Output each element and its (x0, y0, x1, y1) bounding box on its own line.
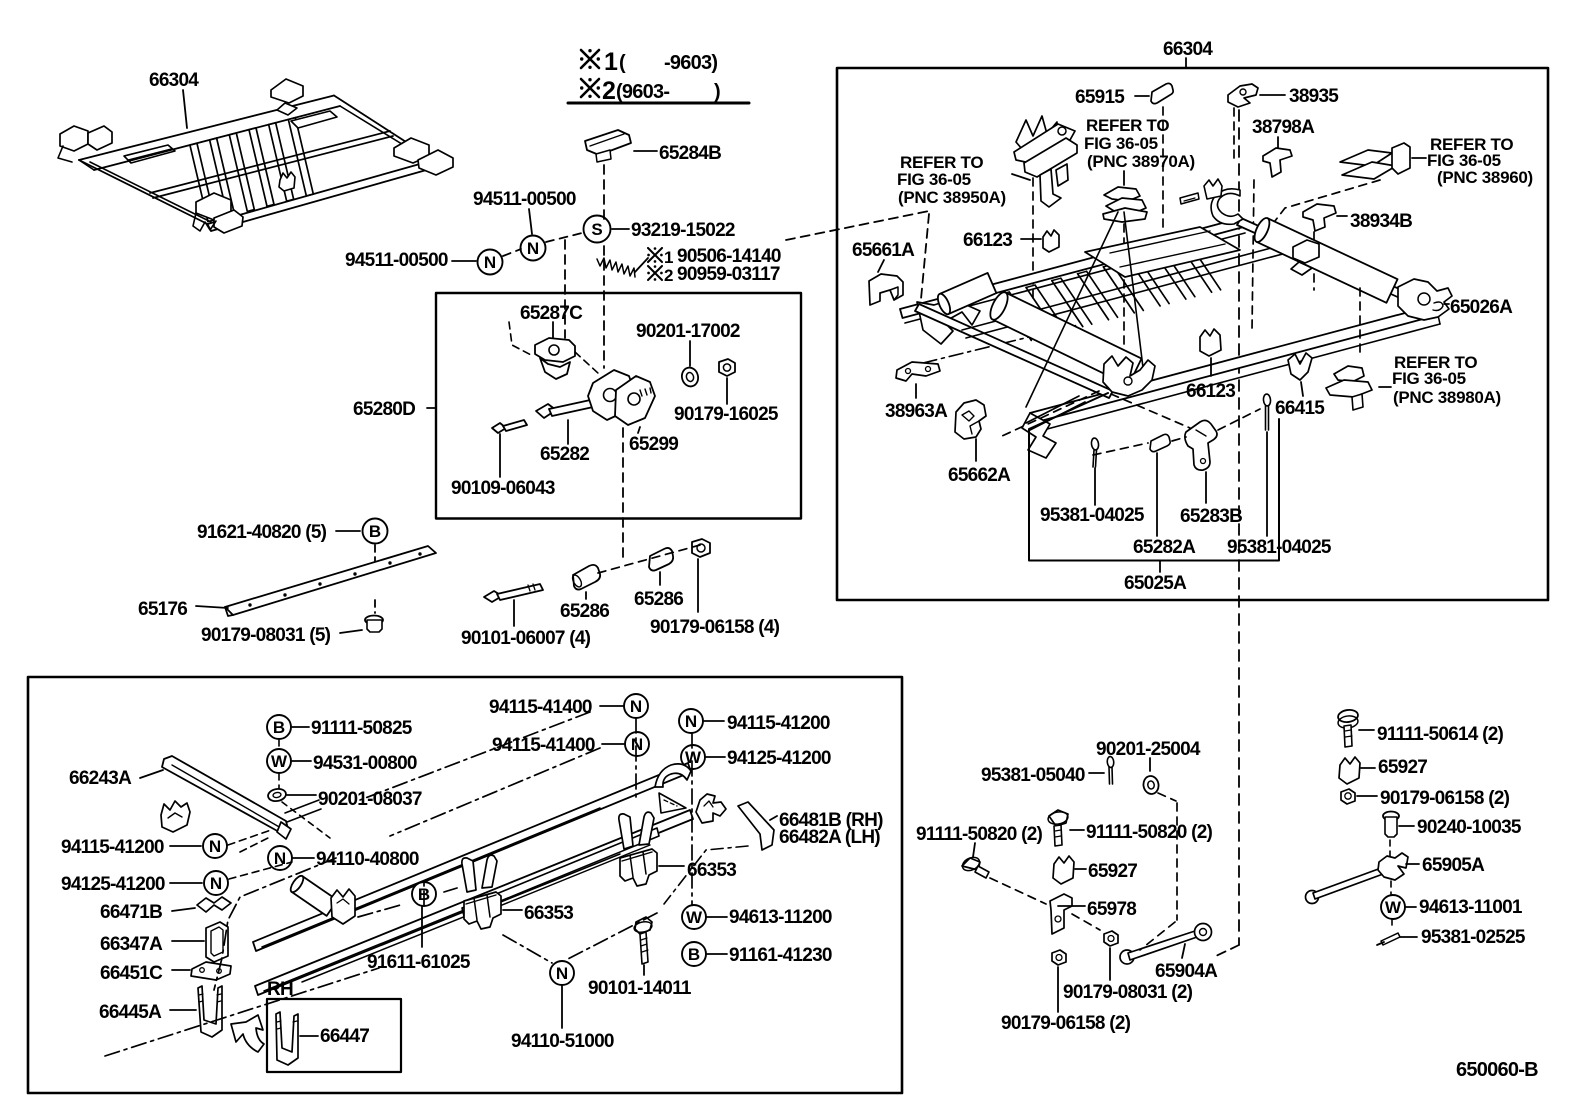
frame 66304 left rail (79, 160, 208, 224)
part 66471B (197, 897, 231, 912)
svg-text:): ) (714, 81, 720, 103)
U-clip prongs left pair (462, 858, 476, 892)
part 65283B elbow (1185, 420, 1217, 470)
svg-text:65661A: 65661A (852, 240, 915, 261)
svg-text:65283B: 65283B (1180, 506, 1242, 527)
svg-text:REFER TO: REFER TO (1086, 116, 1169, 135)
leader 65282 (567, 420, 569, 444)
svg-text:38934B: 38934B (1350, 211, 1412, 232)
part 38970A clips (1104, 187, 1140, 201)
svg-text:66123: 66123 (1186, 381, 1235, 402)
leader 38935 (1260, 94, 1285, 96)
bolt 65282 thread end (640, 390, 642, 396)
svg-text:66243A: 66243A (69, 768, 132, 789)
svg-text:FIG 36-05: FIG 36-05 (897, 170, 971, 189)
svg-text:90179-06158 (4): 90179-06158 (4) (650, 617, 780, 638)
svg-text:65286: 65286 (634, 589, 683, 610)
leader (292, 726, 309, 728)
part 38980A cluster (1334, 366, 1364, 382)
leader 65287C (552, 322, 554, 341)
svg-text:90201-08037: 90201-08037 (318, 789, 422, 810)
rail 66243A (162, 756, 288, 833)
frame TR front rail (1030, 305, 1438, 423)
frame 66304 bottom corner bracket (196, 193, 231, 220)
part 38960 wedges (1340, 150, 1392, 166)
svg-text:N: N (630, 697, 642, 716)
leader 38960 (1412, 157, 1426, 159)
leader 90506 (635, 258, 648, 272)
part 65661A bracket (869, 274, 903, 305)
bolt 90101-14011 (635, 917, 652, 934)
dashes right column (1389, 840, 1391, 856)
dashed vertical from 65284B (603, 165, 605, 222)
dashes around 65287C (509, 322, 531, 355)
svg-text:65282A: 65282A (1133, 537, 1196, 558)
svg-text:65299: 65299 (629, 434, 678, 455)
leader (1109, 948, 1111, 980)
leader line 65284B (634, 150, 657, 152)
svg-text:N: N (527, 239, 539, 258)
leader 95381-04025 right (1266, 432, 1268, 536)
svg-text:94613-11200: 94613-11200 (729, 907, 832, 928)
svg-text:(9603-: (9603- (616, 81, 669, 103)
long rail R1 (253, 763, 691, 951)
frame 66304 right channel piece (291, 111, 337, 128)
svg-text:90240-10035: 90240-10035 (1417, 817, 1522, 838)
frame 66304 top corner bracket (271, 79, 303, 103)
note mark 2 (581, 79, 599, 97)
leader (1149, 758, 1151, 771)
leader 91611-61025 (421, 906, 423, 947)
svg-text:94115-41200: 94115-41200 (727, 713, 830, 734)
leader 66353 left (503, 909, 522, 911)
frame TR right rail (1237, 218, 1435, 312)
node N 41200L1 (203, 834, 227, 858)
box 65280D (436, 293, 801, 519)
frame 66304 mid line (front rail top edge) (150, 131, 390, 193)
svg-text:91611-61025: 91611-61025 (367, 952, 471, 973)
nut 90179-08031(2) (1104, 931, 1118, 946)
leader 90179-16025 (726, 378, 728, 404)
svg-text:N: N (631, 735, 643, 754)
dashed below 38970A clips (1123, 224, 1125, 350)
dashes 65662A chain (1000, 391, 1099, 437)
svg-text:65026A: 65026A (1450, 297, 1513, 318)
leader (172, 908, 195, 911)
nut 90179-06158(2) (1052, 950, 1066, 965)
svg-text:93219-15022: 93219-15022 (631, 220, 735, 241)
dashed below 38934B (1313, 232, 1315, 290)
svg-text:90179-08031 (5): 90179-08031 (5) (201, 625, 331, 646)
dashed diagonal through 65286 (598, 545, 700, 573)
frame TR mid longitudinal (962, 243, 1290, 330)
nut 90179-16025 (719, 359, 735, 376)
leader 65025A (1159, 561, 1161, 572)
svg-text:(PNC 38980A): (PNC 38980A) (1393, 388, 1501, 407)
leader 91621 (336, 530, 360, 532)
leader 94511-00500 upper (529, 209, 532, 234)
leader (707, 953, 727, 955)
svg-text:66304: 66304 (149, 70, 199, 91)
leader (1400, 936, 1417, 938)
frame 66304 left corner bracket (60, 126, 88, 151)
svg-text:91161-41230: 91161-41230 (729, 945, 832, 966)
svg-text:66347A: 66347A (100, 934, 163, 955)
dashed below 38798A (1252, 180, 1254, 330)
svg-text:N: N (209, 837, 221, 856)
part 65284B plate (585, 130, 631, 155)
dashes bottom-right (990, 878, 1046, 904)
svg-text:90101-06007 (4): 90101-06007 (4) (461, 628, 591, 649)
leader 65283B (1205, 472, 1207, 503)
svg-text:1: 1 (604, 48, 618, 76)
svg-text:90179-16025: 90179-16025 (674, 404, 779, 425)
clip 66123 bottom (1200, 329, 1221, 356)
rail right end curl (655, 764, 691, 787)
svg-text:65927: 65927 (1378, 757, 1427, 778)
svg-text:RH: RH (267, 979, 293, 1000)
leader 65905A (1406, 863, 1419, 865)
svg-text:94110-51000: 94110-51000 (511, 1031, 614, 1052)
frame TR front rail web (1036, 324, 1440, 432)
clip 66243A lower-left (161, 801, 190, 832)
svg-text:2: 2 (602, 77, 616, 105)
leader 66304 tr (1185, 58, 1187, 68)
pin 95381-05040 (1107, 756, 1114, 768)
leader (602, 743, 624, 745)
svg-text:66304: 66304 (1163, 39, 1213, 60)
leader 65661A (878, 260, 884, 272)
leader (170, 845, 201, 847)
svg-text:N: N (484, 253, 496, 272)
svg-text:66445A: 66445A (99, 1002, 162, 1023)
svg-text:(PNC 38960): (PNC 38960) (1437, 168, 1533, 187)
leader 90179-08031(5) (340, 630, 362, 633)
part 66451C (191, 962, 231, 980)
svg-text:90101-14011: 90101-14011 (588, 978, 692, 999)
svg-text:65287C: 65287C (520, 303, 583, 324)
clip 66123 top (1043, 230, 1059, 252)
svg-text:95381-04025: 95381-04025 (1227, 537, 1332, 558)
node B 50825 (267, 715, 291, 739)
leader (704, 720, 724, 722)
rail 66243A end hook (277, 822, 291, 839)
svg-text:94125-41200: 94125-41200 (727, 748, 831, 769)
leader 95381-04025 left (1094, 468, 1096, 505)
frame TR left short tube (940, 273, 997, 314)
frame TR: back rail (900, 218, 1244, 318)
long dashed vertical through diagram (1238, 110, 1240, 945)
leader 38980A (1379, 386, 1391, 388)
svg-text:FIG 36-05: FIG 36-05 (1084, 134, 1158, 153)
node W 41200r (681, 745, 705, 769)
leader 38934B (1337, 215, 1347, 217)
node N 41200r (679, 709, 703, 733)
frame 66304 small clip on front band (279, 172, 295, 191)
svg-text:91111-50825: 91111-50825 (311, 718, 413, 739)
svg-text:94531-00800: 94531-00800 (313, 753, 417, 774)
frame TR center platform (1085, 227, 1240, 277)
dashed B to strip (374, 545, 376, 567)
cylinder with clip mid-left (292, 876, 338, 916)
part 65299 triangular plates (588, 370, 634, 420)
leader 65915 (1135, 95, 1149, 97)
leader 38950A (1012, 174, 1030, 180)
leader (973, 843, 975, 857)
svg-text:94115-41400: 94115-41400 (492, 735, 595, 756)
node W 00800 (267, 749, 291, 773)
dashed vertical to 65287C (564, 240, 566, 338)
svg-text:S: S (591, 220, 602, 239)
leader (1089, 772, 1104, 774)
node S (584, 216, 611, 243)
part 38798A bracket (1263, 148, 1292, 177)
svg-text:90201-17002: 90201-17002 (636, 321, 740, 342)
dashed below 65026A (1359, 288, 1361, 358)
leader 66243A (140, 770, 163, 778)
part 66481B strip (738, 802, 774, 850)
clamp 65905A (1378, 853, 1408, 880)
leader 38963A (915, 384, 917, 398)
leader 90201-17002 (689, 341, 691, 366)
dashed below 38950A assembly (1032, 178, 1034, 298)
leader (1058, 905, 1085, 907)
svg-text:65176: 65176 (138, 599, 187, 620)
svg-text:65927: 65927 (1088, 861, 1137, 882)
bolt 90101-06007 (484, 591, 502, 602)
pin near 66415 (1263, 394, 1271, 407)
node W 11200 (682, 905, 706, 929)
svg-text:95381-02525: 95381-02525 (1421, 927, 1526, 948)
node N 40800 (268, 846, 292, 870)
leader (707, 916, 727, 918)
frame TR left rail (915, 304, 1113, 398)
box clip 66353 right (620, 849, 657, 886)
leader 66415 (1301, 382, 1303, 396)
svg-text:65978: 65978 (1087, 899, 1136, 920)
leader (600, 705, 623, 707)
nut 90179-06158 right (1341, 789, 1355, 804)
part 65662A elbow (955, 400, 986, 439)
pin 95381-02525 (1381, 933, 1400, 945)
part 38963A plate (896, 362, 940, 381)
pointer strokes near grommet (285, 800, 319, 813)
leader (1357, 795, 1377, 797)
clamp bracket at rail end (696, 794, 726, 823)
svg-text:94115-41400: 94115-41400 (489, 697, 592, 718)
svg-text:65286: 65286 (560, 601, 609, 622)
leader (1070, 829, 1084, 831)
frame 66304 front rail bottom (208, 160, 435, 224)
peg 90240-10035 (1383, 812, 1399, 821)
svg-text:65904A: 65904A (1155, 961, 1218, 982)
leader (706, 756, 725, 758)
strip 65176 (225, 546, 436, 615)
clip 65927 right (1339, 757, 1360, 784)
frame TR pointer lines from clips (1026, 212, 1118, 407)
leader (293, 857, 314, 859)
bolt 91111-50820 left (962, 858, 980, 870)
svg-text:65662A: 65662A (948, 465, 1011, 486)
svg-text:90179-06158 (2): 90179-06158 (2) (1380, 788, 1510, 809)
cylinder 65286 left (573, 565, 600, 590)
svg-text:66353: 66353 (524, 903, 573, 924)
frame 66304 left channel piece (124, 145, 175, 163)
frame TR tube B (1256, 218, 1397, 303)
leader (172, 969, 190, 971)
gusset triangle at rail end (659, 793, 686, 813)
leader 38970A (1123, 171, 1125, 185)
bracket 65978 (1050, 894, 1072, 934)
dashes between N N S (503, 249, 521, 256)
bolt 91111-50820 right (1049, 810, 1068, 826)
pin 95381-04025 left (1091, 438, 1100, 451)
svg-text:94511-00500: 94511-00500 (345, 250, 448, 271)
cylinder 65286 right (649, 548, 673, 571)
leader (1359, 729, 1374, 731)
svg-text:66123: 66123 (963, 230, 1012, 251)
leader 90179-06158(4) (697, 559, 699, 612)
part 66347A (206, 922, 228, 962)
svg-text:66482A (LH): 66482A (LH) (779, 827, 880, 848)
svg-text:N: N (210, 874, 222, 893)
washer 90201-25004 (1142, 775, 1160, 795)
leader (1406, 906, 1416, 908)
dashed from 38960 down-left (1268, 180, 1380, 230)
washer 90201-17002 (680, 366, 700, 388)
node B (363, 519, 388, 544)
svg-text:65025A: 65025A (1124, 573, 1187, 594)
node N 41400a (624, 694, 648, 718)
leader 65286 right (659, 572, 661, 585)
leader line 66304 (183, 90, 187, 128)
svg-text:95381-05040: 95381-05040 (981, 765, 1085, 786)
leader (292, 760, 311, 762)
part pronged clamp at frame bottom corner (1103, 356, 1155, 396)
node B 41230 (682, 942, 706, 966)
U-clip prongs right pair (619, 814, 633, 849)
svg-text:N: N (556, 964, 568, 983)
dashed line to top-right box (786, 211, 929, 240)
clip 65927 bottom (1053, 856, 1074, 884)
frame TR top-center clamp piece (1211, 189, 1243, 225)
solid pointer lines to 65025A subbox (1030, 402, 1085, 430)
svg-text:65282: 65282 (540, 444, 589, 465)
leader 66123 top (1021, 238, 1041, 240)
dashed below 65915 (1162, 107, 1164, 228)
svg-text:(PNC 38950A): (PNC 38950A) (898, 188, 1006, 207)
svg-text:94115-41200: 94115-41200 (61, 837, 164, 858)
frame TR back rail flange (905, 233, 1245, 323)
dashed vertical below plates (622, 428, 624, 558)
subassembly outline 65025A (1029, 393, 1279, 561)
leader 65026A (1444, 303, 1449, 305)
leader (287, 794, 316, 796)
frame assembly 66304 top-left: back rail (79, 96, 334, 161)
frame TR crossmembers (1000, 294, 1031, 340)
svg-text:650060-B: 650060-B (1456, 1059, 1538, 1081)
box clip 66353 left (464, 892, 501, 929)
bolt 65282 (536, 404, 556, 418)
svg-text:65905A: 65905A (1422, 855, 1485, 876)
svg-text:91111-50820 (2): 91111-50820 (2) (916, 824, 1043, 845)
leader 65176 (196, 606, 228, 608)
svg-text:66415: 66415 (1275, 398, 1325, 419)
leader 65662A (975, 439, 977, 461)
svg-text:2: 2 (664, 266, 673, 285)
svg-text:(PNC 38970A): (PNC 38970A) (1087, 152, 1195, 171)
part 66415 vclip (1288, 353, 1312, 380)
frame 66304 right rail (334, 96, 434, 161)
bolt 90109-06043 (492, 423, 506, 433)
part 66447 (276, 1012, 298, 1065)
dash-dot centerlines rails (360, 712, 590, 800)
svg-text:65915: 65915 (1075, 87, 1125, 108)
leader (561, 986, 563, 1028)
svg-text:B: B (688, 945, 700, 964)
node B 61025 (412, 882, 436, 906)
node N 41200L2 (204, 871, 228, 895)
svg-text:91111-50820 (2): 91111-50820 (2) (1086, 822, 1213, 843)
leader (1057, 967, 1059, 1012)
svg-text:38935: 38935 (1289, 86, 1339, 107)
leader 65299 (638, 427, 640, 433)
svg-text:66353: 66353 (687, 860, 736, 881)
svg-text:N: N (685, 712, 697, 731)
svg-text:90959-03117: 90959-03117 (677, 264, 780, 285)
leader (172, 940, 204, 942)
leader 65282A (1156, 453, 1158, 536)
part 38935 clamp (1228, 84, 1258, 107)
leader 66447 (300, 1035, 318, 1037)
svg-text:B: B (369, 522, 381, 541)
fastener 90179-08031(5) (365, 616, 383, 625)
svg-text:-9603): -9603) (664, 52, 717, 74)
note underline (568, 102, 749, 105)
leader (643, 965, 645, 975)
bolt 91111-50614 (1337, 709, 1358, 724)
leader 93219-15022 (612, 228, 629, 230)
leader 94511-00500 lower (452, 260, 476, 262)
part 90201-08037 grommet (267, 788, 287, 803)
box bottom-left (28, 677, 902, 1093)
svg-text:66447: 66447 (320, 1026, 369, 1047)
frame TR left end notch (917, 299, 980, 344)
svg-text:38798A: 38798A (1252, 117, 1315, 138)
note mark small 1 (648, 248, 662, 262)
svg-text:94613-11001: 94613-11001 (1419, 897, 1523, 918)
svg-text:W: W (1385, 898, 1402, 917)
svg-text:91111-50614 (2): 91111-50614 (2) (1377, 724, 1504, 745)
long rail R2 (255, 810, 693, 995)
leader 38798A (1277, 137, 1279, 150)
leader 66353 right (659, 865, 684, 867)
svg-text:65284B: 65284B (659, 143, 721, 164)
leader 90101-06007 (513, 600, 515, 626)
part 38950A jack carrier assembly (1016, 116, 1057, 156)
frame 66304 right corner bracket (394, 138, 429, 163)
svg-text:FIG 36-05: FIG 36-05 (1392, 369, 1466, 388)
node N 51000 (550, 961, 574, 985)
leader 66123 bottom (1210, 358, 1212, 376)
svg-text:94511-00500: 94511-00500 (473, 189, 576, 210)
leader (1075, 868, 1086, 870)
node N mid (521, 236, 546, 261)
svg-text:90179-06158 (2): 90179-06158 (2) (1001, 1013, 1131, 1034)
svg-text:90179-08031 (2): 90179-08031 (2) (1063, 982, 1193, 1003)
svg-text:65280D: 65280D (353, 399, 415, 420)
leader (1361, 767, 1375, 769)
